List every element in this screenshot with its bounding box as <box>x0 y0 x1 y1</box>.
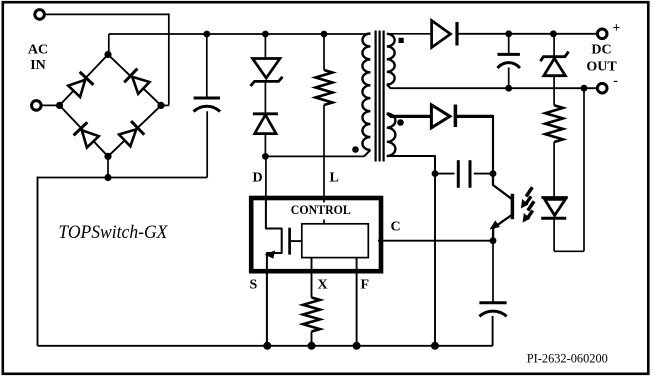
svg-text:+: + <box>613 20 621 35</box>
svg-text:PI-2632-060200: PI-2632-060200 <box>527 351 608 366</box>
svg-text:TOPSwitch-GX: TOPSwitch-GX <box>58 222 168 243</box>
svg-text:AC: AC <box>28 43 48 58</box>
svg-text:X: X <box>318 278 328 293</box>
svg-text:IN: IN <box>30 58 46 73</box>
svg-text:CONTROL: CONTROL <box>291 202 351 217</box>
svg-text:D: D <box>253 171 263 186</box>
svg-text:S: S <box>250 278 258 293</box>
svg-text:L: L <box>330 171 339 186</box>
svg-text:DC: DC <box>591 43 611 58</box>
svg-text:-: - <box>613 74 618 89</box>
svg-text:OUT: OUT <box>586 60 617 75</box>
svg-text:C: C <box>391 220 401 235</box>
svg-text:F: F <box>361 278 370 293</box>
